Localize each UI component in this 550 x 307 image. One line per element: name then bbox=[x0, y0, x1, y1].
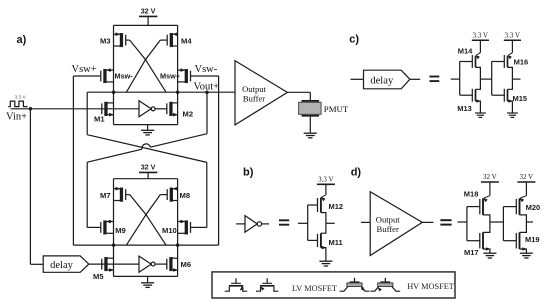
svg-text:c): c) bbox=[349, 34, 359, 46]
svg-text:M16: M16 bbox=[514, 58, 529, 67]
svg-text:Msw+: Msw+ bbox=[160, 71, 180, 80]
svg-text:M6: M6 bbox=[181, 260, 192, 269]
svg-text:Vin+: Vin+ bbox=[6, 111, 27, 122]
svg-text:32 V: 32 V bbox=[141, 7, 156, 16]
svg-text:delay: delay bbox=[370, 75, 394, 86]
svg-text:d): d) bbox=[351, 166, 362, 178]
svg-text:Vout+: Vout+ bbox=[194, 81, 220, 92]
svg-text:HV MOSFET: HV MOSFET bbox=[407, 282, 454, 291]
svg-text:M14: M14 bbox=[458, 46, 473, 55]
svg-text:3.3 V: 3.3 V bbox=[15, 94, 27, 100]
svg-text:M18: M18 bbox=[464, 190, 479, 199]
svg-text:M20: M20 bbox=[526, 203, 541, 212]
svg-text:M1: M1 bbox=[94, 115, 105, 124]
svg-text:M10: M10 bbox=[162, 226, 177, 235]
svg-text:Buffer: Buffer bbox=[243, 94, 265, 104]
svg-text:32 V: 32 V bbox=[520, 173, 534, 181]
svg-text:Buffer: Buffer bbox=[377, 224, 399, 234]
svg-text:Vsw+: Vsw+ bbox=[72, 64, 97, 75]
svg-text:Vsw-: Vsw- bbox=[195, 64, 218, 75]
svg-text:M7: M7 bbox=[100, 191, 111, 200]
svg-text:delay: delay bbox=[50, 260, 73, 271]
svg-text:M19: M19 bbox=[525, 235, 540, 244]
svg-text:b): b) bbox=[243, 166, 254, 178]
svg-text:M3: M3 bbox=[100, 37, 111, 46]
svg-text:M15: M15 bbox=[513, 94, 528, 103]
svg-text:M11: M11 bbox=[329, 238, 343, 247]
svg-text:a): a) bbox=[17, 34, 27, 46]
svg-text:M17: M17 bbox=[464, 248, 479, 257]
svg-text:32 V: 32 V bbox=[141, 163, 156, 172]
svg-text:Output: Output bbox=[376, 214, 400, 224]
svg-text:M2: M2 bbox=[183, 109, 194, 118]
svg-text:M12: M12 bbox=[329, 202, 344, 211]
svg-text:3.3 V: 3.3 V bbox=[318, 175, 333, 183]
svg-text:M5: M5 bbox=[93, 272, 104, 281]
svg-text:3.3 V: 3.3 V bbox=[505, 31, 520, 39]
svg-text:LV MOSFET: LV MOSFET bbox=[292, 284, 337, 293]
svg-text:M4: M4 bbox=[181, 37, 192, 46]
svg-text:PMUT: PMUT bbox=[324, 104, 349, 114]
svg-text:M8: M8 bbox=[180, 191, 191, 200]
svg-text:3.3 V: 3.3 V bbox=[473, 31, 488, 39]
svg-text:Output: Output bbox=[242, 84, 266, 94]
svg-text:M13: M13 bbox=[457, 104, 472, 113]
svg-text:Msw-: Msw- bbox=[115, 71, 134, 80]
svg-text:32 V: 32 V bbox=[483, 173, 497, 181]
svg-text:M9: M9 bbox=[115, 226, 126, 235]
